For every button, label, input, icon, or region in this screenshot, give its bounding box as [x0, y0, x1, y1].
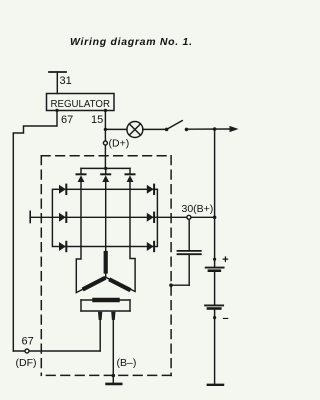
- node B+ connector circle: [187, 215, 191, 219]
- diode D6: [147, 242, 154, 251]
- rotor field winding: [81, 300, 130, 311]
- stator winding right: [106, 247, 135, 292]
- wire B+: [157, 216, 214, 218]
- svg-text:31: 31: [60, 75, 72, 87]
- wire to lamp: [105, 128, 127, 130]
- junction D+ bus: [104, 167, 107, 170]
- lamp L1: [127, 122, 143, 138]
- junction battery plus dot: [213, 258, 216, 261]
- diode D1: [59, 185, 66, 194]
- wire 15 to D+: [104, 110, 106, 168]
- svg-text:67: 67: [61, 114, 73, 126]
- wire battery top: [214, 129, 216, 267]
- svg-text:–: –: [223, 313, 229, 325]
- terminal dot 15: [104, 109, 107, 112]
- battery cell 1: [206, 268, 224, 271]
- terminal dot 67: [55, 109, 58, 112]
- diode D4: [147, 185, 154, 194]
- stator winding left: [76, 247, 106, 293]
- junction case B-: [112, 374, 116, 378]
- node D+ connector circle: [103, 141, 107, 145]
- brush 1: [98, 312, 102, 320]
- phase vertical 1: [80, 189, 82, 246]
- ground B-: [107, 383, 122, 386]
- bridge frame: [52, 189, 157, 246]
- exciter diode D9: [126, 168, 135, 189]
- svg-text:+: +: [222, 254, 229, 266]
- alternator case dashed box: [41, 156, 171, 376]
- terminal 31 T-bar: [49, 72, 66, 94]
- stub terminal W: [30, 211, 52, 222]
- svg-text:(DF): (DF): [16, 357, 37, 369]
- svg-text:30(B+): 30(B+): [182, 203, 214, 215]
- stator winding center: [105, 247, 107, 278]
- svg-text:(B–): (B–): [117, 357, 137, 369]
- wire switch to arrow: [187, 128, 231, 130]
- node DF connector circle: [25, 349, 29, 353]
- phase vertical 3: [129, 189, 131, 246]
- junction battery minus dot: [213, 316, 216, 319]
- svg-text:(D+): (D+): [109, 138, 130, 150]
- wire brush to B-: [112, 320, 114, 384]
- wire lamp to switch: [143, 128, 166, 130]
- svg-text:Wiring diagram No. 1.: Wiring diagram No. 1.: [70, 36, 192, 48]
- svg-text:67: 67: [22, 336, 34, 348]
- diode D2: [59, 213, 66, 222]
- battery cell 2: [205, 305, 223, 308]
- diode D3: [59, 242, 66, 251]
- arrow to ignition: [230, 126, 239, 132]
- svg-text:15: 15: [91, 114, 103, 126]
- wire middle row: [52, 216, 157, 218]
- switch S1: [165, 121, 189, 132]
- wire DF bottom horizontal: [13, 350, 100, 352]
- junction capacitor case: [169, 283, 173, 287]
- battery ground bar: [208, 384, 223, 386]
- wire 67 to left bus: [13, 110, 57, 351]
- junction B+ battery: [213, 216, 217, 220]
- regulator box: [47, 94, 115, 111]
- junction battery tee: [213, 127, 217, 131]
- capacitor C1: [171, 219, 201, 285]
- brush 2: [111, 312, 115, 320]
- exciter diode D8: [101, 168, 110, 189]
- junction lamp tee: [104, 128, 107, 131]
- exciter diode D7: [77, 168, 86, 189]
- diode D5: [147, 213, 154, 222]
- wire between cells: [214, 272, 216, 305]
- phase vertical 2: [105, 189, 107, 246]
- svg-text:REGULATOR: REGULATOR: [51, 99, 111, 110]
- exciter bus: [81, 167, 130, 169]
- wire brush to DF: [99, 320, 101, 351]
- wire battery bottom: [214, 310, 216, 385]
